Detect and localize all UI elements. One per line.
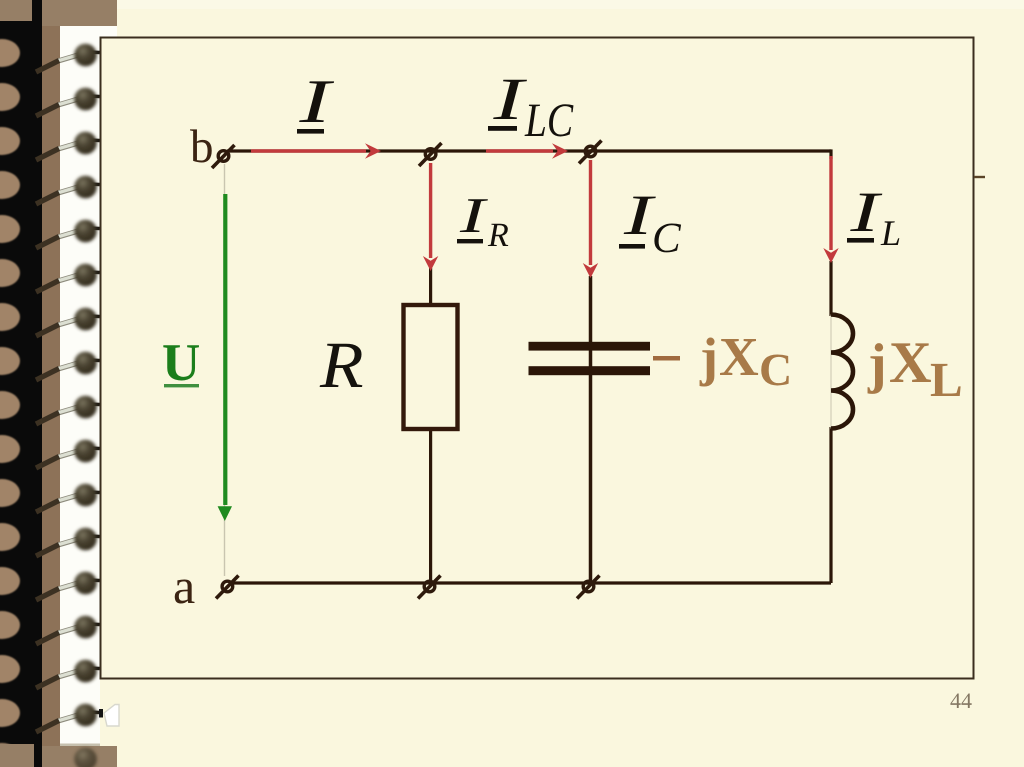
wire R branch upper [429,268,432,305]
svg-text:j: j [699,327,718,387]
svg-text:C: C [759,344,792,395]
capacitor C [529,342,651,351]
current arrow I_C [583,160,598,278]
svg-text:L: L [880,213,901,253]
inductor L [830,315,832,429]
current arrow I_L [823,156,838,263]
wire R branch lower [429,429,432,583]
svg-text:U: U [162,334,200,392]
svg-text:LC: LC [524,94,574,147]
wire right branch upper [829,149,832,159]
wire top bus [227,149,831,152]
node b [212,145,235,168]
node junction bottom (C branch) [577,576,600,599]
svg-text:X: X [889,329,932,395]
voltage arrow U (green) [218,194,232,521]
svg-text:L: L [930,352,963,407]
svg-text:I: I [849,181,884,244]
current arrow I top-left [251,143,381,159]
wire right branch lower [829,427,832,583]
node a [216,576,239,599]
value label -jXc [653,356,680,361]
svg-text:I: I [298,68,336,136]
current arrow I_LC [486,143,568,159]
current arrow I_R [423,163,438,271]
node b faint reference line [224,164,226,576]
svg-text:I: I [459,187,489,243]
wire bottom bus [230,581,831,584]
resistor R [404,305,458,429]
wire C branch [589,276,593,583]
node junction top (C branch) [579,141,602,164]
node junction bottom (R branch) [418,576,441,599]
node junction top (R branch) [419,143,442,166]
svg-text:j: j [867,333,887,395]
svg-text:b: b [190,121,214,173]
svg-text:R: R [319,329,364,402]
svg-text:44: 44 [950,688,972,713]
svg-text:X: X [719,326,759,387]
svg-text:a: a [173,558,195,614]
svg-text:I: I [492,66,528,132]
svg-text:R: R [487,217,509,254]
wire right branch mid (below I_L arrow) [829,261,832,316]
svg-text:C: C [652,215,682,262]
